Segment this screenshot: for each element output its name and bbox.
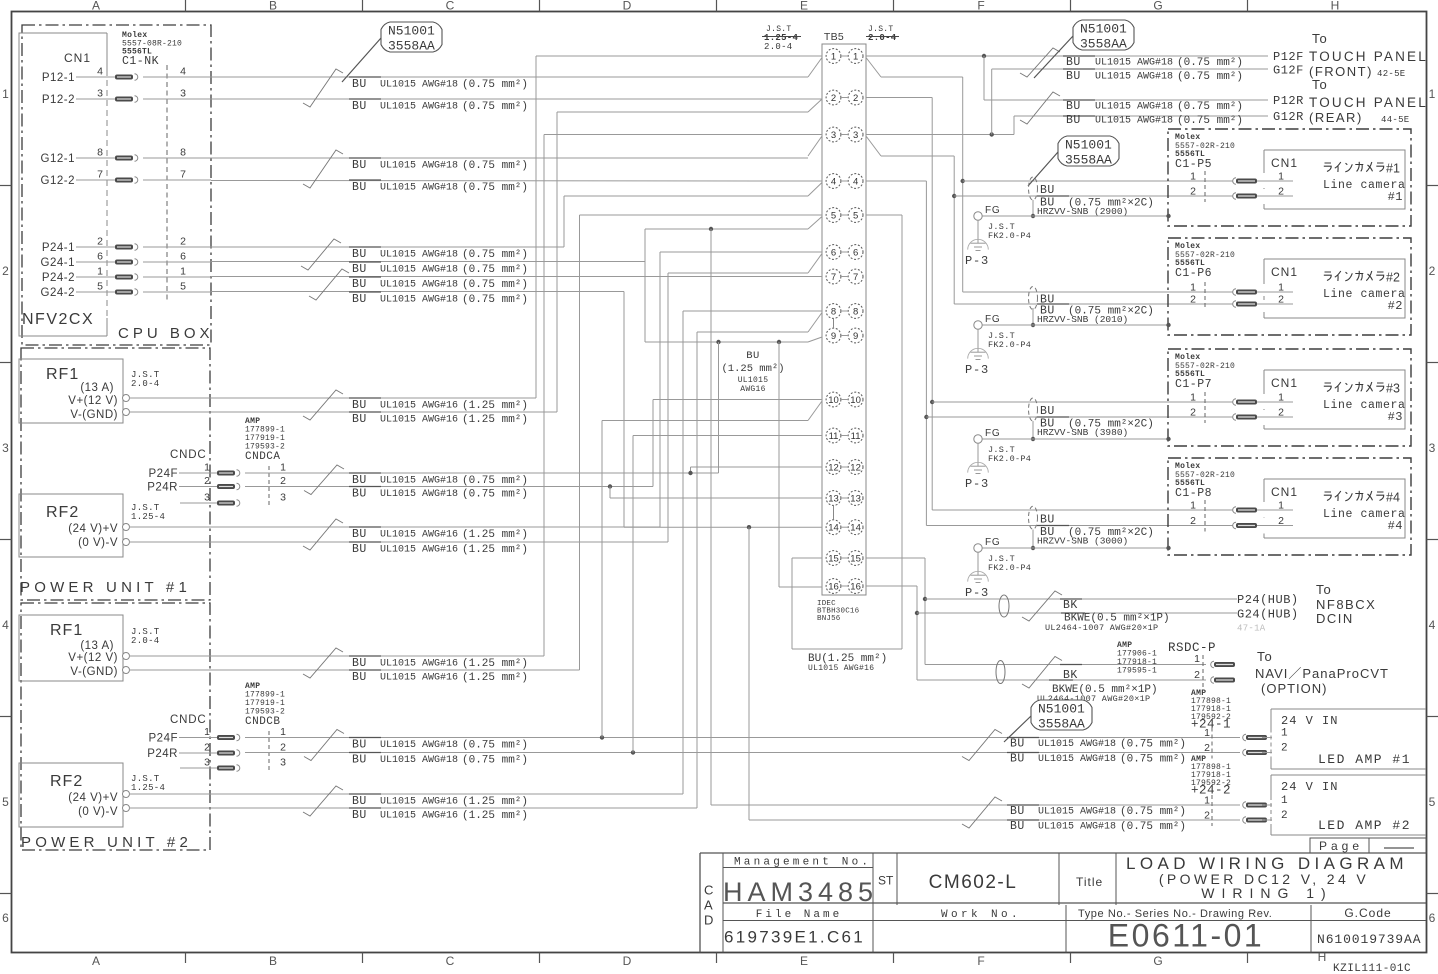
svg-text:P24R: P24R	[147, 748, 178, 760]
wire G24-2 to TB5-14	[211, 291, 624, 293]
svg-text:(0 V)-V: (0 V)-V	[78, 806, 118, 818]
svg-text:G24-1: G24-1	[41, 257, 75, 269]
camera #2 FG terminal	[974, 321, 982, 329]
wire labels LED AMP #1	[1007, 737, 1039, 739]
wire labels touch panel rear	[1063, 99, 1095, 101]
svg-text:P-3: P-3	[965, 586, 989, 600]
svg-text:P24R: P24R	[147, 482, 178, 494]
svg-text:(0.75 mm²): (0.75 mm²)	[1177, 115, 1243, 127]
svg-text:UL1015 AWG#18: UL1015 AWG#18	[380, 102, 458, 113]
svg-text:13: 13	[828, 494, 839, 505]
wire TB5-9 lower branch	[645, 341, 808, 343]
svg-text:FG: FG	[985, 537, 1001, 548]
svg-text:HRZVV-SNB (3000): HRZVV-SNB (3000)	[1037, 536, 1128, 547]
svg-text:P-3: P-3	[965, 477, 989, 491]
wire G24-1 to TB5-5	[211, 261, 645, 263]
svg-text:(0.75 mm²): (0.75 mm²)	[462, 79, 528, 91]
svg-text:E: E	[800, 0, 808, 13]
svg-text:(0.75 mm²): (0.75 mm²)	[462, 294, 528, 306]
svg-text:P24-1: P24-1	[42, 242, 75, 254]
svg-text:NFV2CX: NFV2CX	[22, 311, 94, 328]
svg-text:1.25-4: 1.25-4	[131, 512, 165, 522]
svg-text:47-1A: 47-1A	[1237, 624, 1266, 634]
svg-text:BU: BU	[352, 754, 367, 767]
RF2 #2 terminals	[123, 791, 130, 798]
svg-text:RF2: RF2	[46, 504, 79, 521]
svg-text:P-3: P-3	[965, 254, 989, 268]
wire-change mark RF2#1	[303, 519, 343, 550]
connector +24-1 dashed boundary	[1211, 728, 1213, 759]
svg-text:1: 1	[1190, 282, 1196, 294]
svg-text:DCIN: DCIN	[1316, 611, 1354, 626]
terminal block TB5	[822, 44, 866, 595]
camera #1 ground P-3	[977, 220, 979, 243]
svg-text:7: 7	[831, 272, 836, 283]
svg-text:15: 15	[828, 554, 839, 565]
svg-text:AWG16: AWG16	[740, 385, 766, 394]
wire P12-2 to TB5-2	[211, 98, 815, 100]
svg-text:3: 3	[97, 88, 103, 100]
wire TB5-16 left branch	[778, 342, 780, 587]
svg-text:C: C	[446, 954, 455, 968]
POWER UNIT #1 enclosure	[21, 348, 210, 600]
svg-text:BU: BU	[352, 528, 367, 541]
wire TB5-10 lower branch	[601, 421, 603, 738]
wire P12-1 to TB5-1	[211, 76, 808, 78]
svg-text:BU: BU	[352, 159, 367, 172]
cable sheath RSDC	[996, 661, 1005, 684]
TB5 terminal 13	[826, 491, 841, 506]
svg-text:2.0-4: 2.0-4	[868, 33, 897, 43]
svg-text:UL1015 AWG#18: UL1015 AWG#18	[380, 265, 458, 276]
TB5 terminal 11	[826, 428, 841, 443]
svg-text:(0.75 mm²): (0.75 mm²)	[1177, 57, 1243, 69]
wire-change mark HUB	[1022, 591, 1062, 621]
svg-text:FG: FG	[985, 428, 1001, 439]
svg-text:BU: BU	[1066, 100, 1081, 113]
svg-text:UL1015 AWG#16: UL1015 AWG#16	[380, 545, 458, 556]
svg-text:6: 6	[831, 248, 836, 259]
svg-text:HRZVV-SNB (3980): HRZVV-SNB (3980)	[1037, 427, 1128, 438]
TB5 terminal 3	[826, 127, 841, 142]
svg-text:(1.25 mm²): (1.25 mm²)	[462, 658, 528, 670]
svg-text:E0611-01: E0611-01	[1108, 918, 1264, 954]
svg-text:7: 7	[97, 169, 103, 181]
title block outline	[699, 853, 701, 953]
connector C1-P8 crimp pin 2	[1233, 522, 1236, 529]
svg-text:V+(12 V): V+(12 V)	[68, 395, 118, 407]
svg-text:1: 1	[1190, 392, 1196, 404]
svg-text:5: 5	[180, 281, 186, 293]
svg-text:2: 2	[1190, 407, 1196, 419]
svg-text:BK: BK	[1063, 599, 1078, 612]
svg-text:3: 3	[204, 492, 210, 504]
svg-text:G12R: G12R	[1273, 110, 1304, 124]
svg-text:2: 2	[1204, 742, 1210, 754]
svg-text:14: 14	[850, 523, 861, 534]
svg-text:UL1015 AWG#18: UL1015 AWG#18	[1095, 58, 1173, 69]
svg-text:G.Code: G.Code	[1344, 906, 1391, 920]
svg-text:CM602-L: CM602-L	[929, 872, 1018, 893]
svg-text:2: 2	[1429, 264, 1436, 278]
svg-text:NF8BCX: NF8BCX	[1316, 597, 1376, 612]
wire labels RF2#1	[349, 526, 381, 528]
callout balloon N51001 bottom	[1031, 700, 1092, 730]
svg-text:4: 4	[1429, 618, 1436, 632]
svg-text:Molex: Molex	[1175, 242, 1201, 251]
svg-text:V+(12 V): V+(12 V)	[68, 652, 118, 664]
camera #2 ground P-3	[977, 329, 979, 352]
svg-text:1: 1	[1281, 795, 1288, 807]
page box	[1310, 838, 1426, 853]
POWER UNIT #2 enclosure	[21, 603, 210, 850]
svg-text:5: 5	[97, 281, 103, 293]
svg-text:P-3: P-3	[965, 363, 989, 377]
callout balloon N51001 mid-right	[1058, 136, 1119, 166]
wire-change mark LED AMP #2	[962, 797, 1002, 828]
line camera #4 enclosure	[1168, 458, 1411, 555]
svg-text:File Name: File Name	[756, 909, 842, 921]
svg-text:4: 4	[831, 177, 836, 188]
connector RSDC-P crimp pin 1	[1211, 661, 1214, 668]
svg-text:UL1015 AWG#16: UL1015 AWG#16	[380, 659, 458, 670]
svg-text:N51001: N51001	[388, 23, 435, 38]
wire RF1#2 V+ to TB5-3	[129, 655, 544, 657]
svg-text:12: 12	[828, 463, 839, 474]
svg-text:Management No.: Management No.	[734, 857, 871, 869]
TB5 terminal 7	[826, 269, 841, 284]
wire-change mark CNDCB	[304, 730, 344, 761]
svg-text:1: 1	[1281, 728, 1288, 740]
svg-text:6: 6	[180, 251, 186, 263]
wire P24-1 to TB5-4	[211, 246, 564, 248]
svg-text:H: H	[1331, 0, 1340, 13]
svg-text:C: C	[704, 883, 713, 898]
connector C1-P7 crimp pin 1	[1233, 399, 1236, 406]
svg-text:POWER UNIT #2: POWER UNIT #2	[21, 834, 192, 851]
RF2 #1 terminals	[123, 524, 130, 531]
wire labels CNDCA	[349, 472, 381, 474]
svg-text:10: 10	[828, 395, 839, 406]
svg-text:UL1015 AWG#16: UL1015 AWG#16	[380, 811, 458, 822]
wire CNDCB-1 to LED AMP #1 pin1	[245, 737, 1240, 739]
TB5 terminal 9	[826, 328, 841, 343]
svg-text:BU: BU	[352, 809, 367, 822]
svg-text:P12R: P12R	[1273, 94, 1304, 108]
svg-text:G12-1: G12-1	[41, 153, 75, 165]
svg-text:2.0-4: 2.0-4	[764, 42, 793, 52]
connector RSDC-P crimp pin 2	[1211, 677, 1214, 684]
svg-text:UL1015 AWG#18: UL1015 AWG#18	[1095, 102, 1173, 113]
svg-text:2: 2	[280, 475, 286, 487]
line camera #2 enclosure	[1168, 238, 1411, 335]
svg-text:HRZVV-SNB (2010): HRZVV-SNB (2010)	[1037, 314, 1128, 325]
LED AMP #2 pin stub wires	[1262, 804, 1272, 806]
svg-text:BU: BU	[352, 657, 367, 670]
svg-text:2: 2	[2, 264, 9, 278]
TB5 terminal 8	[826, 304, 841, 319]
svg-text:1: 1	[1278, 392, 1284, 404]
svg-text:3: 3	[180, 88, 186, 100]
svg-text:CN1: CN1	[1271, 485, 1298, 499]
svg-text:(0.75 mm²): (0.75 mm²)	[462, 279, 528, 291]
svg-text:UL1015 AWG#18: UL1015 AWG#18	[380, 489, 458, 500]
svg-text:4: 4	[180, 66, 186, 78]
svg-text:G: G	[1153, 954, 1162, 968]
svg-text:10: 10	[850, 395, 861, 406]
RF2 #2 box	[19, 763, 123, 827]
svg-text:D: D	[704, 913, 713, 928]
svg-text:(0 V)-V: (0 V)-V	[78, 537, 118, 549]
wire-change mark RSDC	[1022, 657, 1062, 689]
camera #3 FG terminal	[974, 435, 982, 443]
svg-text:UL1015 AWG#18: UL1015 AWG#18	[380, 161, 458, 172]
svg-text:V-(GND): V-(GND)	[70, 409, 118, 421]
svg-text:1: 1	[1278, 500, 1284, 512]
svg-text:(0.75 mm²): (0.75 mm²)	[462, 101, 528, 113]
svg-text:BU: BU	[352, 293, 367, 306]
TB5 terminal 1	[826, 49, 841, 64]
svg-text:8: 8	[853, 307, 858, 318]
wire TB5-5 right to loop	[866, 214, 902, 216]
svg-text:(1.25 mm²): (1.25 mm²)	[462, 796, 528, 808]
svg-text:BU: BU	[352, 263, 367, 276]
svg-text:To: To	[1257, 649, 1273, 664]
svg-text:6: 6	[97, 251, 103, 263]
svg-text:(1.25 mm²): (1.25 mm²)	[462, 529, 528, 541]
svg-text:(0.75 mm²): (0.75 mm²)	[1177, 101, 1243, 113]
connector C1-NK dashed boundary	[166, 65, 168, 300]
NFV2CX unit box	[19, 33, 107, 336]
camera #1 shield drain wire	[1032, 200, 1034, 216]
svg-text:UL1015 AWG#18: UL1015 AWG#18	[380, 80, 458, 91]
svg-text:16: 16	[828, 582, 839, 593]
wire camera#2 pin1	[963, 291, 1264, 293]
svg-text:V-(GND): V-(GND)	[70, 666, 118, 678]
wire-change mark CNDCA	[304, 465, 344, 495]
connector C1-P8 crimp pin 1	[1233, 507, 1236, 514]
connector C1-P8 dashed boundary	[1204, 500, 1206, 532]
TB5 terminal 10	[826, 392, 841, 407]
wire labels LED AMP #2	[1007, 804, 1039, 806]
svg-text:TB5: TB5	[824, 31, 844, 43]
svg-text:#3: #3	[1386, 382, 1400, 396]
wire RF2#2 -V to TB5-8 lower	[129, 807, 697, 809]
wire TB5-16 right to G24(HUB) and RSDC-P pin2	[866, 585, 917, 587]
svg-text:4: 4	[853, 177, 858, 188]
connector C1-P6 dashed boundary	[1204, 282, 1206, 310]
svg-text:BU: BU	[352, 78, 367, 91]
wire camera#1 pin2	[954, 195, 1264, 197]
svg-text:BU: BU	[352, 543, 367, 556]
svg-text:2: 2	[831, 93, 836, 104]
svg-text:KZIL111-01C: KZIL111-01C	[1333, 963, 1411, 974]
connector +24-2 dashed boundary	[1211, 795, 1213, 826]
svg-text:BU: BU	[352, 278, 367, 291]
svg-text:UL1015: UL1015	[738, 376, 769, 385]
svg-text:UL1015 AWG#18: UL1015 AWG#18	[380, 295, 458, 306]
wire-change mark LED AMP #1	[962, 730, 1002, 761]
RF1 #1 terminals	[123, 395, 130, 402]
camera #3 ground P-3	[977, 443, 979, 466]
svg-text:3558AA: 3558AA	[1065, 152, 1112, 167]
connector C1-P7 crimp pin 2	[1233, 414, 1236, 421]
connector C1-P7 dashed boundary	[1204, 392, 1206, 423]
svg-text:Molex: Molex	[1175, 353, 1201, 362]
svg-text:3: 3	[1429, 441, 1436, 455]
svg-text:(0.75 mm²): (0.75 mm²)	[462, 740, 528, 752]
camera #4 shield drain wire	[1032, 530, 1034, 549]
svg-text:1: 1	[180, 266, 186, 278]
svg-text:3: 3	[2, 441, 9, 455]
svg-text:N51001: N51001	[1065, 137, 1112, 152]
wire TB5-3 to G12F	[866, 134, 1014, 136]
svg-text:HAM3485: HAM3485	[723, 877, 878, 907]
svg-text:(1.25 mm²): (1.25 mm²)	[462, 544, 528, 556]
svg-text:#3: #3	[1388, 410, 1403, 424]
svg-text:Page: Page	[1319, 839, 1363, 853]
svg-text:(24 V)+V: (24 V)+V	[68, 792, 118, 804]
wire-change mark RF1#1	[303, 390, 343, 420]
svg-text:To: To	[1312, 77, 1328, 92]
svg-text:1: 1	[280, 462, 286, 474]
svg-text:FK2.0-P4: FK2.0-P4	[988, 340, 1031, 350]
svg-text:CN1: CN1	[1271, 376, 1298, 390]
svg-text:3: 3	[280, 757, 286, 769]
svg-text:G24-2: G24-2	[41, 287, 75, 299]
connector C1-P5 crimp pin 2	[1233, 193, 1236, 200]
svg-text:11: 11	[851, 431, 861, 442]
svg-text:16: 16	[850, 582, 861, 593]
svg-text:#1: #1	[1386, 162, 1400, 176]
camera #1 name labels	[1324, 162, 1384, 172]
svg-text:1: 1	[1278, 282, 1284, 294]
wire-change marks CPU wires	[303, 69, 343, 107]
TB5 terminal 14	[826, 520, 841, 535]
RF1 #2 terminals	[123, 653, 130, 660]
svg-text:4: 4	[97, 66, 103, 78]
svg-text:(0.75 mm²): (0.75 mm²)	[1120, 821, 1186, 833]
svg-text:(0.75 mm²): (0.75 mm²)	[462, 475, 528, 487]
svg-text:6: 6	[853, 248, 858, 259]
svg-text:BU: BU	[352, 474, 367, 487]
svg-text:P12-1: P12-1	[42, 72, 75, 84]
svg-text:2: 2	[97, 236, 103, 248]
svg-text:BU: BU	[352, 739, 367, 752]
svg-text:A: A	[704, 898, 713, 913]
wire RF1#2 V- to TB5-5	[129, 669, 580, 671]
wire CNDCA-1 to TB5-12	[245, 472, 719, 474]
svg-text:CN1: CN1	[64, 51, 91, 65]
svg-text:3: 3	[204, 757, 210, 769]
svg-text:9: 9	[853, 331, 858, 342]
RF1 #1 box	[19, 359, 123, 423]
svg-text:(0.75 mm²): (0.75 mm²)	[462, 489, 528, 501]
svg-text:CNDCA: CNDCA	[245, 451, 281, 463]
wire camera#4 pin1	[932, 509, 1264, 511]
svg-text:UL1015 AWG#18: UL1015 AWG#18	[1038, 822, 1116, 833]
wire-change mark RF2#2	[303, 786, 343, 816]
wire TB5-3 lower to camera pin2 bus	[866, 136, 881, 156]
TB5 terminal 4	[826, 174, 841, 189]
svg-text:2: 2	[204, 742, 210, 754]
wire G12-2 to TB5-4	[211, 180, 822, 183]
svg-text:C1-P7: C1-P7	[1175, 378, 1212, 391]
svg-text:G12-2: G12-2	[41, 175, 75, 187]
svg-text:BU: BU	[1010, 753, 1025, 766]
CNDCA pin 3	[180, 502, 217, 504]
svg-text:42-5E: 42-5E	[1377, 69, 1406, 79]
svg-text:7: 7	[853, 272, 858, 283]
svg-text:WIRING 1): WIRING 1)	[1201, 885, 1332, 901]
svg-text:G24(HUB): G24(HUB)	[1237, 608, 1299, 622]
wire camera#3 pin2	[926, 416, 1264, 418]
svg-text:1: 1	[1278, 171, 1284, 183]
TB5 terminal 15	[826, 551, 841, 566]
svg-text:5: 5	[831, 211, 836, 222]
svg-text:CNDC: CNDC	[170, 449, 206, 461]
svg-text:(OPTION): (OPTION)	[1261, 681, 1328, 696]
svg-text:2: 2	[1190, 186, 1196, 198]
svg-text:5: 5	[1429, 795, 1436, 809]
svg-text:BU: BU	[352, 248, 367, 261]
wire camera#2 pin2	[954, 303, 1264, 305]
svg-text:BU: BU	[1010, 820, 1025, 833]
camera #3 CN1 box	[1264, 370, 1405, 429]
svg-text:NAVI／PanaProCVT: NAVI／PanaProCVT	[1255, 666, 1389, 681]
svg-text:1: 1	[1190, 500, 1196, 512]
cable sheath P24/G24 HUB	[999, 595, 1009, 617]
connector RSDC-P dashed boundary	[1202, 655, 1204, 687]
camera #3 shield drain wire	[1032, 421, 1034, 439]
svg-text:UL1015 AWG#16: UL1015 AWG#16	[380, 530, 458, 541]
svg-text:UL1015 AWG#18: UL1015 AWG#18	[1038, 807, 1116, 818]
svg-text:BU: BU	[352, 795, 367, 808]
svg-text:#4: #4	[1388, 519, 1403, 533]
svg-text:P12-2: P12-2	[42, 94, 75, 106]
svg-text:D: D	[623, 0, 632, 13]
CNDCB dashed boundary	[268, 731, 270, 771]
svg-text:(0.75 mm²): (0.75 mm²)	[1120, 806, 1186, 818]
svg-text:UL1015 AWG#18: UL1015 AWG#18	[1038, 754, 1116, 765]
svg-text:F: F	[977, 954, 984, 968]
svg-text:BU: BU	[352, 181, 367, 194]
wire G12R feed	[1013, 116, 1015, 135]
svg-text:BU: BU	[1010, 805, 1025, 818]
svg-text:2: 2	[1204, 810, 1210, 822]
svg-text:F: F	[977, 0, 984, 13]
wire P12R feed	[983, 56, 985, 100]
svg-text:G: G	[1153, 0, 1162, 13]
wire labels touch panel front	[1063, 55, 1095, 57]
svg-text:14: 14	[828, 523, 839, 534]
svg-text:A: A	[92, 954, 100, 968]
LED AMP #2 box	[1271, 774, 1426, 776]
svg-text:1: 1	[204, 726, 210, 738]
svg-text:CPU BOX: CPU BOX	[118, 325, 214, 342]
svg-text:BNJ56: BNJ56	[817, 615, 841, 623]
wire-change mark RF1#2	[303, 648, 343, 678]
camera #1 cable sheath	[1029, 177, 1038, 200]
svg-text:(24 V)+V: (24 V)+V	[68, 523, 118, 535]
wire LED AMP #2 pin2 feed	[748, 527, 750, 820]
svg-text:8: 8	[97, 147, 103, 159]
wire labels RF2#2	[349, 793, 381, 795]
svg-text:44-5E: 44-5E	[1381, 115, 1410, 125]
svg-text:UL1015 AWG#16: UL1015 AWG#16	[808, 664, 874, 673]
camera #2 shield drain wire	[1032, 308, 1034, 325]
svg-text:3: 3	[831, 130, 836, 141]
